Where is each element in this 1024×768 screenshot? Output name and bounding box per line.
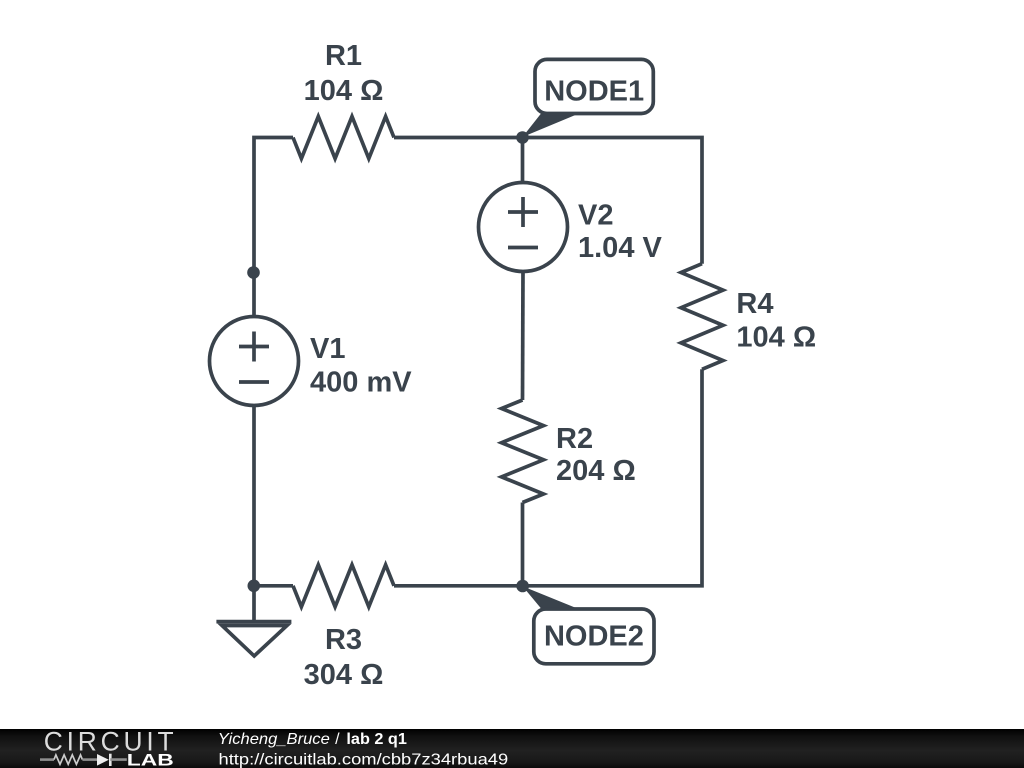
svg-text:Yicheng_Bruce: Yicheng_Bruce xyxy=(218,731,330,748)
svg-text:204 Ω: 204 Ω xyxy=(556,455,636,487)
svg-text:LAB: LAB xyxy=(127,751,174,768)
svg-text:400 mV: 400 mV xyxy=(310,367,412,399)
svg-text:104 Ω: 104 Ω xyxy=(736,321,816,353)
svg-text:V1: V1 xyxy=(310,333,345,365)
svg-text:304 Ω: 304 Ω xyxy=(304,659,384,691)
svg-text:NODE2: NODE2 xyxy=(544,620,644,652)
svg-text:1.04 V: 1.04 V xyxy=(578,232,662,264)
svg-text:104 Ω: 104 Ω xyxy=(304,75,384,107)
svg-text:NODE1: NODE1 xyxy=(544,75,644,107)
svg-text:R4: R4 xyxy=(736,288,773,320)
svg-text:V2: V2 xyxy=(578,199,613,231)
svg-text:R3: R3 xyxy=(325,624,362,656)
svg-text:/: / xyxy=(335,731,340,748)
svg-text:lab 2 q1: lab 2 q1 xyxy=(346,731,407,748)
svg-text:R2: R2 xyxy=(556,423,593,455)
svg-text:http://circuitlab.com/cbb7z34r: http://circuitlab.com/cbb7z34rbua49 xyxy=(219,751,509,768)
svg-text:R1: R1 xyxy=(325,40,362,72)
